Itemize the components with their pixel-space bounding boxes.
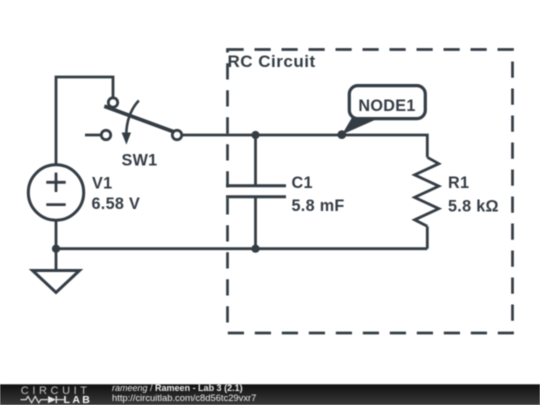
svg-text:5.8 mF: 5.8 mF bbox=[292, 197, 345, 215]
svg-text:R1: R1 bbox=[448, 174, 469, 192]
label V1 value bbox=[92, 175, 141, 214]
svg-text:LAB: LAB bbox=[64, 394, 93, 405]
label SW1 bbox=[122, 152, 158, 170]
footer credit line bbox=[112, 383, 243, 393]
resistor R1 bbox=[415, 157, 439, 248]
node NODE1 flag bbox=[337, 86, 425, 139]
footer bar bbox=[0, 384, 540, 405]
dashed box RC Circuit boundary bbox=[228, 50, 513, 334]
junction dot at V1 bottom bbox=[52, 245, 60, 253]
wire V1 bottom to ground bbox=[55, 219, 58, 271]
ground bbox=[33, 271, 80, 293]
footer url line bbox=[112, 392, 256, 403]
junction dot at C1 top bbox=[251, 131, 259, 139]
svg-text:RC Circuit: RC Circuit bbox=[228, 52, 316, 71]
label C1 value bbox=[292, 174, 345, 215]
voltage source V1 bbox=[28, 165, 83, 220]
label RC Circuit bbox=[228, 52, 316, 71]
svg-text:NODE1: NODE1 bbox=[358, 97, 415, 115]
svg-text:SW1: SW1 bbox=[122, 152, 158, 170]
footer logo LAB text bbox=[64, 394, 93, 405]
capacitor C1 bbox=[226, 135, 286, 249]
svg-text:C1: C1 bbox=[292, 174, 313, 192]
svg-text:5.8 kΩ: 5.8 kΩ bbox=[448, 198, 499, 216]
svg-text:V1: V1 bbox=[92, 175, 112, 193]
svg-text:http://circuitlab.com/c8d56tc2: http://circuitlab.com/c8d56tc29vxr7 bbox=[112, 392, 256, 403]
wire V1 top to switch SW1 bbox=[56, 77, 113, 166]
wire bottom rail bbox=[56, 247, 427, 250]
svg-text:6.58 V: 6.58 V bbox=[92, 195, 141, 213]
switch SW1 bbox=[85, 98, 182, 145]
wire top rail: switch to resistor R1 bbox=[182, 135, 428, 157]
junction dot at C1 bottom bbox=[251, 245, 259, 253]
label R1 value bbox=[448, 174, 499, 215]
footer CircuitLab logo text bbox=[21, 385, 91, 397]
footer logo resistor-diode symbol bbox=[21, 396, 65, 403]
